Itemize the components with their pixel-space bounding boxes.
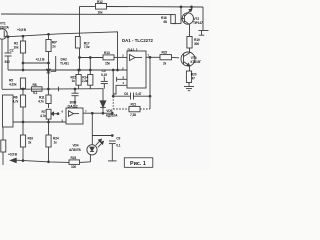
resistor R22 xyxy=(160,55,172,60)
node xyxy=(22,62,24,64)
resistor R1 xyxy=(1,127,6,165)
wire vertical to R17 xyxy=(79,7,81,37)
node xyxy=(79,69,81,71)
node xyxy=(22,121,24,123)
resistor R9 xyxy=(46,34,51,70)
wire W1 +0.5V net xyxy=(7,32,118,70)
resistor R23 xyxy=(69,160,80,165)
wire pin8 xyxy=(117,78,127,80)
resistor R13 xyxy=(79,55,127,75)
transistor VT2 xyxy=(181,7,194,25)
resistor R10 xyxy=(20,135,25,161)
resistor R20 xyxy=(186,71,191,87)
node R2 top xyxy=(22,35,24,37)
wire dashed drop xyxy=(112,96,114,109)
wire DA1.2 out xyxy=(83,112,112,114)
wire R17 bottom xyxy=(79,48,81,70)
resistor R17 xyxy=(75,37,80,49)
wire out y57 xyxy=(146,56,160,58)
diode DA2 TL431 xyxy=(47,69,51,95)
capacitor C9 xyxy=(108,135,117,161)
connector box left xyxy=(3,95,14,127)
resistor R19 xyxy=(187,25,192,48)
resistor R24 xyxy=(46,135,51,162)
diode VD5 xyxy=(100,89,106,114)
resistor R11 xyxy=(46,95,51,108)
terminal out xyxy=(199,7,209,35)
transistor VT1 xyxy=(0,29,7,89)
wire +2.1V xyxy=(23,62,48,64)
node xyxy=(22,160,24,162)
capacitor C4 3000 xyxy=(72,88,79,108)
node xyxy=(22,88,24,90)
resistor R6 xyxy=(20,89,25,135)
wire op-amp out branch xyxy=(149,57,151,109)
resistor R5 4.33k xyxy=(20,78,25,89)
wire bottom rail xyxy=(17,160,70,162)
wire C9 top link xyxy=(92,135,112,137)
wire LED branch xyxy=(91,112,93,145)
trimmer R7 xyxy=(46,109,59,135)
wire mid rail y70 xyxy=(8,69,127,71)
arrow left xyxy=(11,159,18,161)
op-amp DA1.2 xyxy=(66,108,83,124)
wire y89 xyxy=(2,88,104,91)
wire xyxy=(172,56,180,58)
node C2 top xyxy=(7,36,9,38)
node xyxy=(111,112,113,114)
capacitor C6 xyxy=(112,93,151,100)
wire xyxy=(107,6,204,9)
wire pin4 xyxy=(113,85,127,94)
caption Рис. 1 xyxy=(124,158,153,168)
node xyxy=(48,62,50,64)
wire B upper supply xyxy=(80,6,96,8)
node xyxy=(22,69,24,71)
LED VD4 xyxy=(87,139,104,155)
capacitor C2 xyxy=(5,37,12,70)
resistor R2 xyxy=(20,36,25,70)
resistor R16 xyxy=(171,6,182,24)
capacitor C5 xyxy=(101,77,108,89)
capacitor C7 pin8 xyxy=(116,77,118,82)
node xyxy=(117,69,119,71)
node xyxy=(48,121,50,123)
node xyxy=(48,161,50,163)
ground xyxy=(184,87,194,91)
resistor R21 dashed net xyxy=(113,106,150,111)
wire pin5 net y122 xyxy=(13,121,66,123)
resistor R12 xyxy=(96,4,107,10)
transistor VT3 xyxy=(181,48,195,71)
wire top rail A xyxy=(1,13,173,16)
resistor R8 xyxy=(32,87,43,91)
resistor R14 xyxy=(88,69,93,89)
node R9 top xyxy=(48,33,50,35)
op-amp DA1.1 xyxy=(127,51,146,88)
node xyxy=(191,6,193,8)
wire vertical x113 xyxy=(112,70,114,96)
wire TL431 branch xyxy=(51,56,56,71)
resistor R15 xyxy=(76,69,81,89)
